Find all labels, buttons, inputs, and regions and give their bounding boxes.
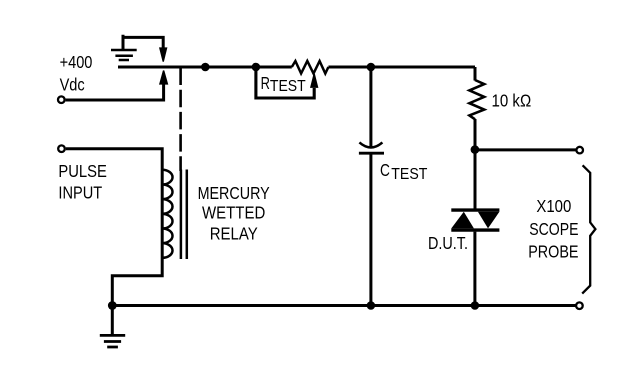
svg-text:RELAY: RELAY	[210, 223, 258, 243]
svg-text:+400: +400	[60, 52, 93, 72]
svg-text:TEST: TEST	[270, 78, 306, 95]
svg-text:SCOPE: SCOPE	[529, 219, 578, 239]
svg-text:Vdc: Vdc	[60, 74, 85, 94]
svg-text:INPUT: INPUT	[58, 182, 102, 202]
svg-text:PROBE: PROBE	[528, 242, 578, 262]
svg-text:D.U.T.: D.U.T.	[428, 233, 468, 253]
svg-text:C: C	[380, 160, 390, 180]
svg-text:TEST: TEST	[391, 166, 427, 183]
svg-text:PULSE: PULSE	[58, 161, 107, 181]
svg-text:10 kΩ: 10 kΩ	[492, 91, 532, 111]
svg-text:X100: X100	[536, 196, 571, 216]
svg-text:WETTED: WETTED	[202, 203, 265, 223]
svg-text:MERCURY: MERCURY	[198, 183, 270, 203]
svg-text:R: R	[261, 73, 270, 93]
